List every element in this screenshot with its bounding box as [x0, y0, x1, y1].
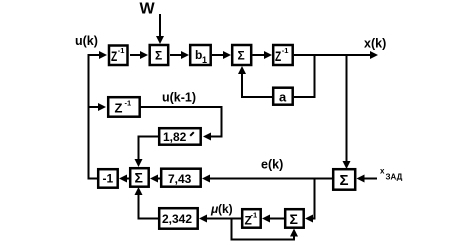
- svg-text:e(k): e(k): [261, 158, 283, 172]
- wire 7,43 output into S3 right: [158, 178, 160, 180]
- wire Z2 output around to block 1827: [140, 107, 222, 137]
- gain block 1,827: [159, 128, 201, 145]
- svg-text:-1: -1: [125, 99, 132, 108]
- wire Z3 output to x(k): [294, 54, 371, 56]
- summer S4: [333, 169, 355, 190]
- svg-text:Z: Z: [115, 101, 123, 116]
- block -1: [98, 169, 118, 188]
- summer S5: [285, 209, 304, 228]
- svg-text:x: x: [380, 167, 385, 176]
- wire tee from u(k) vertical into delay Z2: [89, 106, 100, 108]
- svg-text:Σ: Σ: [238, 49, 245, 63]
- svg-text:Z: Z: [275, 48, 282, 64]
- wire Z4 output into 2,342: [206, 218, 241, 220]
- wire branch from x(k) line down to summer S4: [346, 56, 348, 162]
- svg-text:-1: -1: [251, 211, 258, 220]
- gain block 7,43: [161, 169, 201, 187]
- delay block Z3 (z^-1): [273, 45, 293, 65]
- wire b1 to S2: [212, 54, 224, 56]
- svg-text:x(k): x(k): [364, 37, 386, 51]
- svg-text:Σ: Σ: [155, 49, 162, 63]
- wire Z1 to S1: [130, 54, 141, 56]
- svg-text:a: a: [279, 90, 287, 105]
- svg-text:Σ: Σ: [340, 172, 349, 189]
- gain block 2,342: [159, 208, 198, 229]
- wire a output to S2 bottom: [242, 73, 272, 97]
- svg-text:2,342: 2,342: [162, 212, 192, 226]
- wire S5 output into Z4: [269, 218, 284, 220]
- wire S2 to Z3: [253, 54, 266, 56]
- wire mu(k) loop back into S5 bottom: [232, 219, 295, 240]
- wire W arrow into summer S1: [159, 14, 161, 37]
- svg-text:-1: -1: [103, 172, 114, 186]
- svg-text:1: 1: [202, 55, 207, 65]
- wire branch from e(k) down to S5 right: [312, 179, 315, 219]
- svg-text:u(k-1): u(k-1): [162, 91, 196, 105]
- summer S1: [150, 45, 169, 65]
- delay block Z2 (z^-1 wide): [108, 97, 140, 117]
- wire S1 to b1: [170, 54, 182, 56]
- svg-text:ЗАД: ЗАД: [386, 173, 403, 182]
- wire e(k) from S4 to 7,43: [209, 178, 332, 180]
- svg-text:Σ: Σ: [290, 211, 298, 227]
- delay block Z4 (z^-1): [242, 209, 261, 228]
- wire feedback vertical from -1 up to u(k): [89, 55, 101, 179]
- wire 2,342 output to S3 bottom: [139, 194, 159, 219]
- svg-text:W: W: [140, 1, 156, 18]
- svg-text:u(k): u(k): [75, 34, 98, 48]
- summer S3: [130, 168, 149, 187]
- svg-text:7,43: 7,43: [168, 172, 192, 186]
- wire 1827 output to S3 top: [139, 137, 159, 161]
- delay block Z1 (z^-1): [109, 46, 128, 66]
- svg-text:-1: -1: [118, 46, 125, 55]
- svg-text:(k): (k): [218, 202, 233, 216]
- summer S2: [232, 45, 251, 65]
- gain block b1: [190, 45, 211, 65]
- gain block a: [273, 88, 293, 105]
- svg-text:Z: Z: [111, 48, 118, 64]
- wire branch from x(k) line down to gain a input: [294, 56, 315, 97]
- wire S3 output into -1: [127, 178, 129, 180]
- wire x_zad input into S4: [364, 178, 377, 180]
- svg-text:1,82: 1,82: [163, 130, 187, 144]
- svg-text:Σ: Σ: [135, 170, 143, 186]
- svg-text:-1: -1: [282, 46, 289, 55]
